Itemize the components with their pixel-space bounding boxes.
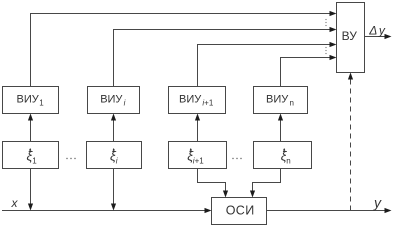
arrowhead Δy output bbox=[385, 34, 392, 39]
wire ОСИ to y output bbox=[267, 210, 386, 212]
wire ξn to ВИУn bbox=[280, 120, 282, 142]
svg-text:x: x bbox=[11, 196, 19, 210]
svg-text:1: 1 bbox=[32, 157, 37, 166]
svg-text:1: 1 bbox=[39, 99, 44, 108]
block ВИУi+1 bbox=[169, 87, 226, 114]
arrowhead into ВУ wire3 bbox=[330, 42, 337, 47]
svg-text:Δy: Δy bbox=[368, 23, 386, 37]
wire ξi to ВИУi bbox=[113, 120, 115, 142]
svg-text:ВИУ: ВИУ bbox=[266, 93, 289, 105]
wire ВИУ1 to ВУ bbox=[31, 14, 331, 87]
arrowhead into ВИУi bbox=[111, 114, 116, 121]
svg-text:i: i bbox=[124, 99, 126, 108]
wire ξ1 to x line bbox=[30, 169, 32, 205]
block ОСИ bbox=[212, 198, 267, 225]
arrowhead into ВИУn bbox=[278, 114, 283, 121]
arrowhead dashed into ВУ bbox=[348, 73, 353, 80]
svg-text:ОСИ: ОСИ bbox=[226, 203, 255, 217]
dots between wire1 and wire2 bbox=[325, 19, 326, 20]
svg-text:ВИУ: ВИУ bbox=[100, 93, 123, 105]
arrowhead ξi+1 into ОСИ bbox=[223, 191, 228, 198]
block ВИУi bbox=[88, 87, 140, 114]
wire ВИУi+1 to ВУ bbox=[198, 45, 331, 87]
svg-text:n: n bbox=[286, 157, 290, 166]
dots between ξi+1 and ξn bbox=[232, 158, 233, 159]
tick above ξi+1 bbox=[190, 150, 192, 153]
arrowhead into ВИУi+1 bbox=[195, 114, 200, 121]
wire ξn to ОСИ bbox=[253, 169, 281, 192]
dots between wire3 and wire4 bbox=[325, 47, 326, 48]
wire dashed feedback to ВУ bbox=[350, 79, 352, 211]
svg-text:i+1: i+1 bbox=[202, 99, 213, 108]
wire x input line bbox=[2, 210, 205, 212]
arrowhead ξ1 onto x line bbox=[28, 204, 33, 211]
svg-text:ВИУ: ВИУ bbox=[179, 93, 202, 105]
block ξ1 bbox=[3, 142, 59, 169]
dots between ξ1 and ξi bbox=[66, 158, 67, 159]
wire ВИУi to ВУ bbox=[114, 30, 331, 87]
arrowhead into ВУ wire2 bbox=[330, 27, 337, 32]
wire ξi+1 to ОСИ bbox=[198, 169, 226, 192]
wire ВУ output bbox=[365, 36, 386, 38]
arrowhead into ВИУ1 bbox=[28, 114, 33, 121]
wire ВИУn to ВУ bbox=[281, 58, 331, 87]
tick above ξn bbox=[283, 150, 285, 153]
svg-text:n: n bbox=[290, 99, 294, 108]
svg-text:i: i bbox=[116, 157, 118, 166]
svg-text:ВУ: ВУ bbox=[342, 29, 358, 43]
block ξn bbox=[254, 142, 312, 169]
block ξi bbox=[87, 142, 142, 169]
wire ξi+1 to ВИУi+1 bbox=[197, 120, 199, 142]
arrowhead into ВУ wire4 bbox=[330, 55, 337, 60]
block ВИУn bbox=[254, 87, 308, 114]
svg-text:ВИУ: ВИУ bbox=[17, 93, 40, 105]
svg-text:i+1: i+1 bbox=[193, 157, 204, 166]
arrowhead into ВУ wire1 bbox=[330, 11, 337, 16]
arrowhead y output bbox=[385, 208, 392, 213]
arrowhead ξn into ОСИ bbox=[250, 191, 255, 198]
wire ξ1 to ВИУ1 bbox=[30, 120, 32, 142]
tick above ξi bbox=[113, 150, 115, 153]
wire ξi to x line bbox=[113, 169, 115, 205]
arrowhead ξi onto x line bbox=[111, 204, 116, 211]
block ξi+1 bbox=[169, 142, 227, 169]
block ВИУ1 bbox=[3, 87, 59, 114]
svg-text:y: y bbox=[373, 194, 382, 210]
arrowhead into ОСИ from x line bbox=[205, 208, 212, 213]
block ВУ bbox=[337, 3, 365, 73]
tick above ξ1 bbox=[29, 150, 31, 153]
